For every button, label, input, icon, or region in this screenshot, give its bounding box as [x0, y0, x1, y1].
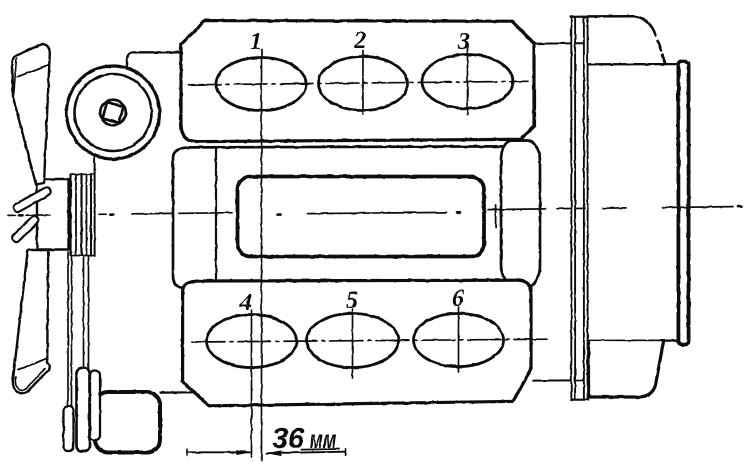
bell housing corner dash 1	[658, 41, 662, 51]
bell housing corner curve	[633, 16, 656, 35]
manifold center dash	[308, 212, 447, 213]
top row center line	[188, 81, 528, 85]
flywheel housing plate bar 2	[584, 17, 588, 400]
lower pulley bar B	[90, 371, 100, 441]
bell housing rim bar	[678, 62, 688, 345]
pulley hub circle	[100, 100, 126, 126]
pulley outer circle	[67, 66, 160, 159]
cylinder 5 vertical line	[352, 309, 354, 378]
cylinder 4 vertical line	[251, 310, 253, 457]
bottom row center line	[192, 339, 548, 342]
engine block outline	[173, 146, 502, 288]
svg-text:1: 1	[250, 29, 262, 55]
dimension arrow right	[267, 452, 346, 454]
bell housing lower inner edge	[588, 339, 677, 341]
block inner vertical line	[215, 147, 217, 280]
belt line pair left	[68, 252, 72, 441]
svg-text:4: 4	[239, 290, 252, 316]
belt line pair right	[84, 256, 89, 441]
crank pulley side hatch lines	[69, 175, 71, 256]
center line dots	[19, 207, 742, 216]
fan lower blade	[13, 250, 50, 393]
lower cylinder head	[183, 280, 531, 406]
head-to-plate connector top	[535, 42, 584, 44]
lower pulley bar A	[77, 368, 90, 451]
fan cross blade lower (edge-on)	[11, 215, 40, 244]
fan upper blade edge band	[14, 58, 17, 94]
cylinder 2 vertical line	[362, 51, 364, 115]
svg-text:2: 2	[353, 28, 366, 54]
manifold center dots	[278, 212, 461, 214]
upper cylinder head	[181, 21, 534, 142]
fan lower blade fold line	[18, 359, 47, 371]
svg-text:3: 3	[457, 29, 470, 55]
bell housing bottom scoop	[589, 341, 664, 397]
crank pulley side hatch caps	[71, 173, 95, 175]
cylinder 3 ellipse	[422, 55, 513, 109]
fan lower blade tip inner line	[15, 368, 45, 390]
bell housing top edge	[588, 15, 633, 18]
dimension text underline	[302, 448, 340, 451]
cylinder 5 ellipse	[307, 314, 399, 368]
pulley inner rim circle	[75, 74, 152, 151]
svg-text:6: 6	[452, 286, 464, 312]
head-to-plate connector bottom	[533, 379, 584, 381]
cylinder 6 vertical line	[458, 307, 460, 372]
main crank center line	[8, 214, 16, 216]
plate top cap	[571, 16, 589, 18]
pulley square hole	[103, 102, 124, 123]
block bottom-left chamfer to lower head	[182, 290, 198, 394]
cylinder 4 ellipse	[207, 315, 297, 368]
cylinder 6 ellipse	[414, 314, 504, 367]
fan cross blade upper (edge-on)	[12, 186, 52, 213]
svg-text:5: 5	[346, 288, 358, 314]
flywheel housing plate bar 1	[571, 17, 575, 400]
bell housing upper inner edge	[588, 63, 677, 66]
cylinder 1 vertical line	[261, 49, 263, 461]
fan upper blade fold line	[17, 65, 49, 78]
dimension arrow left	[187, 451, 250, 453]
cylinder 1 ellipse	[216, 58, 306, 111]
plate bottom cap	[571, 399, 589, 401]
crank pulley bracket	[127, 52, 180, 68]
crank center tick	[495, 205, 497, 228]
intake manifold	[238, 177, 485, 257]
svg-text:36 мм: 36 мм	[272, 423, 336, 455]
rear neck capsule	[501, 141, 540, 288]
engine mount foot	[95, 392, 160, 453]
lower pulley bar C	[64, 407, 74, 452]
cylinder 2 ellipse	[319, 57, 408, 111]
fan hub block	[37, 179, 69, 250]
cylinder 3 vertical line	[467, 47, 469, 115]
foot-to-block connector line	[160, 391, 194, 394]
bell housing corner dash 2	[663, 55, 666, 63]
fan upper blade	[12, 44, 49, 185]
